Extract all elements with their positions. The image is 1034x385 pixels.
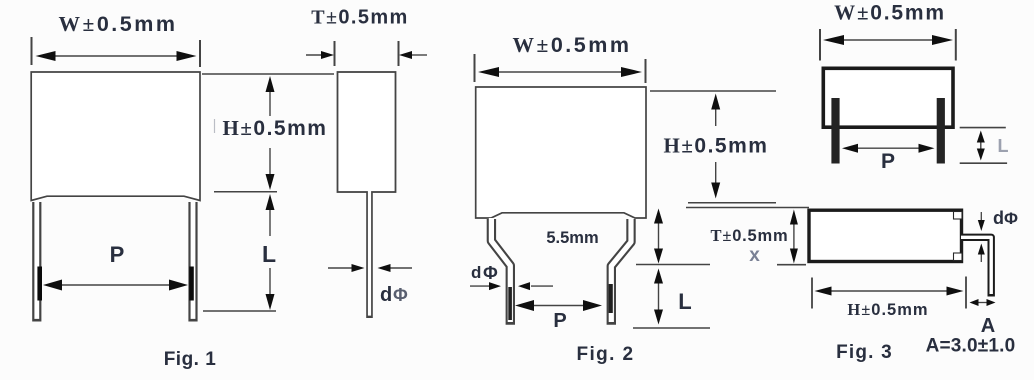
svg-text:W±0.5mm: W±0.5mm <box>59 12 178 36</box>
svg-text:P: P <box>110 242 125 267</box>
svg-text:Fig. 1: Fig. 1 <box>164 349 217 370</box>
svg-text:d: d <box>471 263 481 282</box>
svg-text:L: L <box>678 289 691 314</box>
svg-text:L: L <box>262 241 276 267</box>
svg-text:L: L <box>998 136 1009 156</box>
svg-text:W±0.5mm: W±0.5mm <box>513 33 632 57</box>
svg-text:H±0.5mm: H±0.5mm <box>664 134 769 158</box>
svg-text:Fig. 3: Fig. 3 <box>836 342 893 363</box>
svg-text:Fig. 2: Fig. 2 <box>576 344 634 365</box>
svg-text:H±0.5mm: H±0.5mm <box>223 116 328 140</box>
svg-text:P: P <box>881 150 895 173</box>
svg-text:T±0.5mm: T±0.5mm <box>311 7 409 29</box>
svg-text:P: P <box>553 310 566 332</box>
svg-text:A=3.0±1.0: A=3.0±1.0 <box>926 336 1016 357</box>
svg-text:A: A <box>981 315 995 337</box>
svg-text:Φ: Φ <box>393 285 408 305</box>
svg-text:d: d <box>380 284 392 306</box>
svg-text:T±0.5mm: T±0.5mm <box>711 226 789 245</box>
svg-text:Φ: Φ <box>483 263 498 283</box>
svg-text:H±0.5mm: H±0.5mm <box>847 300 928 319</box>
svg-text:d: d <box>993 208 1004 228</box>
svg-text:Φ: Φ <box>1004 209 1018 228</box>
svg-text:5.5mm: 5.5mm <box>546 229 598 247</box>
svg-text:W±0.5mm: W±0.5mm <box>834 1 946 25</box>
svg-text:x: x <box>749 245 760 266</box>
